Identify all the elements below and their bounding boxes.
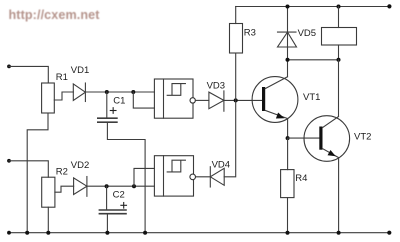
ground node C1 path: [143, 231, 147, 235]
wire C2 bottom to ground rail: [106, 214, 108, 233]
node rail at relay: [337, 5, 341, 9]
wire input2 to R2: [9, 161, 48, 177]
wire VT2 collector from coil node: [338, 60, 340, 117]
node branch top: [131, 90, 135, 94]
wire VT1 emitter to VT2 base node: [287, 119, 289, 139]
diode VD4: [210, 167, 224, 187]
ground node R4: [286, 231, 290, 235]
supply terminal dot: [387, 4, 391, 8]
node C2 top: [105, 184, 109, 188]
ground node R1 path: [25, 231, 29, 235]
U1 divider: [163, 79, 165, 118]
svg-text:http://cxem.net: http://cxem.net: [9, 8, 101, 22]
wire input1 to R1: [9, 66, 48, 83]
svg-text:VD1: VD1: [71, 65, 89, 76]
wire R1 tap to VD1 anode: [54, 92, 73, 100]
wire R4 bottom to ground rail: [287, 198, 289, 233]
opto module U1 box: [154, 79, 193, 118]
wire U2 output to VD4 cathode: [196, 176, 211, 178]
ground node VT2 emitter: [337, 231, 341, 235]
wire R3 bottom through base node to VD4: [224, 53, 236, 177]
input terminal top-left: [7, 65, 11, 69]
svg-text:R3: R3: [244, 28, 256, 39]
U1 hysteresis symbol: [167, 84, 185, 96]
svg-text:VD5: VD5: [298, 28, 316, 39]
capacitor C1: [98, 92, 117, 122]
ground terminal left: [7, 231, 11, 235]
transistor VT2: [304, 116, 350, 162]
node branch bottom: [132, 184, 136, 188]
wire base node to R4: [287, 138, 289, 170]
U2 hysteresis symbol: [167, 160, 185, 172]
wire VT2 emitter to ground rail: [338, 158, 340, 233]
ground rail: [9, 232, 389, 234]
wire VD1 cathode to box1 input: [85, 91, 154, 93]
svg-text:R1: R1: [56, 72, 68, 83]
wire VD3 to VT1 base: [224, 99, 262, 101]
svg-text:VT2: VT2: [354, 132, 371, 143]
wire VD2 cathode to box2 input: [87, 185, 154, 187]
svg-text:VD4: VD4: [212, 159, 230, 170]
wire branch to box1 lower input: [133, 92, 154, 108]
diode VD1: [73, 83, 85, 102]
svg-text:R2: R2: [56, 166, 68, 177]
transistor VT1: [252, 77, 298, 123]
wire U1 output to VD3: [195, 99, 209, 101]
node base junction: [234, 98, 238, 102]
ground terminal right: [387, 231, 391, 235]
zener VD5: [278, 7, 297, 77]
svg-text:VD2: VD2: [71, 160, 89, 171]
svg-text:C1: C1: [113, 95, 125, 106]
svg-text:VT1: VT1: [303, 92, 320, 103]
svg-text:C2: C2: [113, 190, 125, 201]
opto module U2 box: [154, 156, 193, 196]
svg-text:R4: R4: [295, 173, 307, 184]
resistor R1: [42, 83, 55, 113]
diode VD2: [74, 177, 87, 197]
wire C1 bottom to ground rail: [107, 122, 145, 233]
wire branch to box2 upper input: [134, 168, 154, 186]
node rail at VD5: [286, 5, 290, 9]
wire R2 tap to VD2 anode: [55, 186, 74, 192]
wire R2 bottom to ground rail: [47, 207, 49, 233]
node C1 top: [105, 90, 109, 94]
wire rail corner to R3: [235, 7, 237, 24]
resistor R4: [281, 170, 294, 198]
capacitor C2: [99, 186, 126, 214]
U2 output terminal circle: [190, 174, 196, 180]
polarity plus C1: [110, 108, 116, 114]
input terminal bottom-left: [7, 159, 11, 163]
diode VD3: [209, 91, 224, 111]
node VD5 bottom: [286, 58, 290, 62]
wire base node to VT2: [288, 137, 320, 139]
U2 divider: [163, 156, 165, 196]
wire R1 bottom to ground rail: [27, 113, 48, 233]
U1 output terminal circle: [190, 98, 195, 103]
resistor R3: [230, 24, 243, 54]
ground node C2: [105, 231, 109, 235]
node VT2 base: [286, 136, 290, 140]
positive supply rail: [236, 6, 390, 8]
wire VD5 to coil bottom: [288, 59, 339, 61]
ground node R2: [46, 231, 50, 235]
relay K1 coil: [322, 7, 357, 60]
resistor R2: [42, 177, 55, 207]
polarity plus C2: [121, 203, 127, 209]
node coil bottom: [337, 58, 341, 62]
svg-text:VD3: VD3: [207, 80, 225, 91]
